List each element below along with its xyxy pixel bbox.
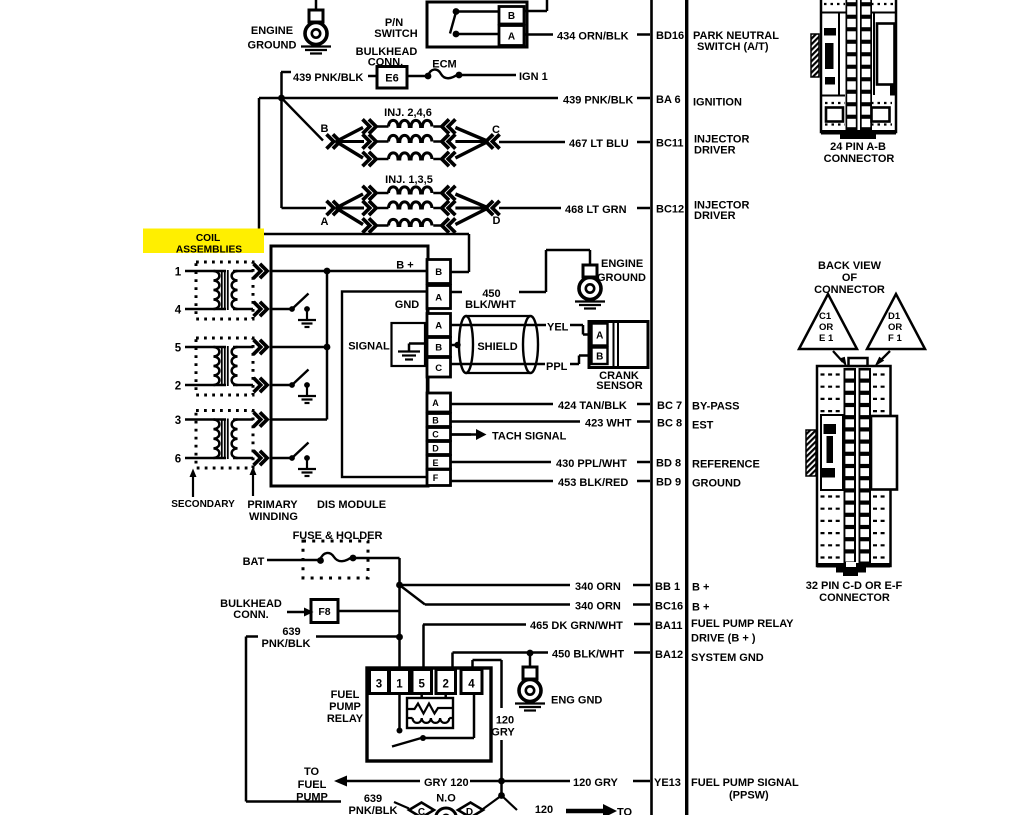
svg-text:ENGINE: ENGINE	[251, 25, 293, 37]
svg-text:BC16: BC16	[655, 601, 683, 613]
svg-text:4: 4	[468, 679, 475, 691]
svg-text:BD 9: BD 9	[656, 477, 681, 489]
svg-text:C: C	[492, 124, 500, 136]
svg-text:A: A	[596, 331, 603, 342]
svg-text:C: C	[432, 430, 439, 440]
svg-text:120: 120	[496, 715, 514, 727]
svg-text:BC11: BC11	[656, 138, 684, 150]
svg-text:B: B	[596, 352, 603, 363]
svg-text:ASSEMBLIES: ASSEMBLIES	[176, 245, 242, 256]
svg-text:B: B	[435, 343, 442, 354]
svg-text:TO: TO	[617, 807, 633, 815]
svg-text:BD 8: BD 8	[656, 458, 681, 470]
svg-text:A: A	[432, 398, 439, 408]
svg-text:D: D	[466, 807, 473, 815]
svg-text:PNK/BLK: PNK/BLK	[262, 638, 311, 650]
svg-text:TACH SIGNAL: TACH SIGNAL	[492, 431, 567, 443]
svg-text:ENG GND: ENG GND	[551, 695, 602, 707]
svg-text:B: B	[435, 267, 442, 278]
svg-text:439 PNK/BLK: 439 PNK/BLK	[563, 95, 633, 107]
svg-text:GROUND: GROUND	[597, 272, 646, 284]
svg-text:TO: TO	[304, 766, 320, 778]
svg-text:COIL: COIL	[196, 233, 220, 244]
svg-text:GRY 120: GRY 120	[424, 777, 469, 789]
svg-text:B +: B +	[692, 602, 709, 614]
svg-text:N.O: N.O	[436, 793, 456, 805]
svg-text:PPL: PPL	[546, 361, 568, 373]
svg-text:2: 2	[175, 381, 181, 393]
svg-text:EST: EST	[692, 420, 714, 432]
svg-text:CONNECTOR: CONNECTOR	[824, 153, 895, 165]
svg-text:OR: OR	[888, 322, 902, 333]
svg-text:IGNITION: IGNITION	[693, 97, 742, 109]
svg-text:DIS MODULE: DIS MODULE	[317, 499, 386, 511]
svg-text:SENSOR: SENSOR	[596, 380, 643, 392]
svg-text:BC 8: BC 8	[657, 418, 682, 430]
svg-text:C1: C1	[819, 311, 832, 322]
svg-text:430 PPL/WHT: 430 PPL/WHT	[556, 458, 627, 470]
svg-text:C: C	[418, 807, 425, 815]
svg-text:(PPSW): (PPSW)	[729, 790, 769, 802]
svg-text:C: C	[435, 363, 442, 374]
svg-text:GROUND: GROUND	[248, 40, 297, 52]
svg-text:F: F	[433, 473, 439, 483]
svg-text:3: 3	[175, 415, 181, 427]
svg-text:INJ. 2,4,6: INJ. 2,4,6	[384, 107, 432, 119]
svg-text:IGN 1: IGN 1	[519, 71, 548, 83]
svg-text:ECM: ECM	[432, 59, 456, 71]
svg-text:BC12: BC12	[656, 204, 684, 216]
svg-text:F 1: F 1	[888, 333, 902, 344]
svg-text:BY-PASS: BY-PASS	[692, 401, 739, 413]
svg-text:453 BLK/RED: 453 BLK/RED	[558, 477, 628, 489]
svg-text:GROUND: GROUND	[692, 478, 741, 490]
svg-text:SYSTEM GND: SYSTEM GND	[691, 652, 764, 664]
svg-text:BA11: BA11	[655, 620, 683, 632]
svg-text:SECONDARY: SECONDARY	[171, 499, 235, 510]
svg-text:A: A	[508, 32, 515, 43]
svg-text:4: 4	[175, 305, 182, 317]
svg-text:D: D	[432, 444, 439, 454]
svg-text:INJ. 1,3,5: INJ. 1,3,5	[385, 174, 433, 186]
svg-text:B +: B +	[692, 582, 709, 594]
svg-text:SWITCH (A/T): SWITCH (A/T)	[697, 41, 769, 53]
svg-text:5: 5	[175, 343, 182, 355]
svg-text:GND: GND	[395, 299, 420, 311]
svg-text:BC 7: BC 7	[657, 400, 682, 412]
svg-text:E 1: E 1	[819, 333, 834, 344]
svg-text:B: B	[432, 416, 439, 426]
svg-text:REFERENCE: REFERENCE	[692, 459, 760, 471]
svg-text:WINDING: WINDING	[249, 511, 298, 523]
svg-text:468 LT GRN: 468 LT GRN	[565, 204, 627, 216]
svg-text:DRIVER: DRIVER	[694, 210, 736, 222]
svg-text:465 DK GRN/WHT: 465 DK GRN/WHT	[530, 620, 623, 632]
svg-text:E6: E6	[385, 73, 398, 85]
svg-text:423 WHT: 423 WHT	[585, 418, 632, 430]
svg-text:F8: F8	[318, 606, 330, 618]
svg-text:FUEL PUMP RELAY: FUEL PUMP RELAY	[691, 618, 794, 630]
svg-text:120: 120	[535, 804, 553, 815]
svg-text:120 GRY: 120 GRY	[573, 777, 619, 789]
svg-text:1: 1	[175, 267, 182, 279]
svg-text:D1: D1	[888, 311, 901, 322]
svg-text:YE13: YE13	[654, 777, 681, 789]
svg-text:CONNECTOR: CONNECTOR	[814, 284, 885, 296]
svg-text:B: B	[508, 11, 515, 22]
svg-text:SWITCH: SWITCH	[374, 28, 417, 40]
svg-text:FUEL PUMP SIGNAL: FUEL PUMP SIGNAL	[691, 777, 799, 789]
svg-text:YEL: YEL	[547, 322, 569, 334]
svg-text:BB 1: BB 1	[655, 581, 680, 593]
svg-text:OR: OR	[819, 322, 833, 333]
svg-text:B: B	[321, 123, 329, 135]
svg-text:434 ORN/BLK: 434 ORN/BLK	[557, 31, 629, 43]
svg-text:FUEL: FUEL	[298, 779, 327, 791]
svg-text:PUMP: PUMP	[329, 701, 361, 713]
svg-text:PRIMARY: PRIMARY	[247, 499, 298, 511]
svg-text:A: A	[321, 216, 329, 228]
svg-text:RELAY: RELAY	[327, 713, 364, 725]
svg-text:340 ORN: 340 ORN	[575, 601, 621, 613]
svg-text:ENGINE: ENGINE	[601, 258, 643, 270]
svg-text:24 PIN A-B: 24 PIN A-B	[830, 141, 886, 153]
svg-text:SHIELD: SHIELD	[477, 341, 517, 353]
svg-text:A: A	[435, 321, 442, 332]
svg-text:CONN.: CONN.	[233, 609, 268, 621]
svg-text:3: 3	[376, 679, 382, 691]
svg-text:FUEL: FUEL	[331, 689, 360, 701]
svg-text:6: 6	[175, 454, 181, 466]
svg-text:B +: B +	[396, 260, 413, 272]
svg-text:DRIVER: DRIVER	[694, 145, 736, 157]
svg-text:BACK VIEW: BACK VIEW	[818, 260, 882, 272]
svg-text:639: 639	[364, 793, 382, 805]
svg-text:CONNECTOR: CONNECTOR	[819, 592, 890, 604]
svg-text:450 BLK/WHT: 450 BLK/WHT	[552, 649, 624, 661]
svg-text:2: 2	[443, 679, 449, 691]
svg-text:BA12: BA12	[655, 649, 683, 661]
svg-text:DRIVE (B + ): DRIVE (B + )	[691, 633, 756, 645]
svg-text:32 PIN C-D OR E-F: 32 PIN C-D OR E-F	[806, 580, 903, 592]
svg-text:BA 6: BA 6	[656, 94, 681, 106]
svg-text:D: D	[493, 215, 501, 227]
svg-text:GRY: GRY	[491, 727, 515, 739]
svg-text:340 ORN: 340 ORN	[575, 581, 621, 593]
svg-text:439 PNK/BLK: 439 PNK/BLK	[293, 72, 363, 84]
svg-text:1: 1	[396, 679, 403, 691]
svg-text:467 LT BLU: 467 LT BLU	[569, 138, 629, 150]
svg-text:PNK/BLK: PNK/BLK	[349, 805, 398, 815]
svg-text:OF: OF	[842, 272, 858, 284]
svg-text:A: A	[435, 293, 442, 304]
svg-text:BD16: BD16	[656, 30, 684, 42]
svg-text:639: 639	[282, 626, 300, 638]
svg-text:BAT: BAT	[243, 556, 265, 568]
svg-text:E: E	[432, 458, 438, 468]
svg-text:5: 5	[419, 679, 426, 691]
svg-text:SIGNAL: SIGNAL	[348, 341, 390, 353]
svg-text:424 TAN/BLK: 424 TAN/BLK	[558, 400, 627, 412]
svg-text:BLK/WHT: BLK/WHT	[465, 299, 516, 311]
